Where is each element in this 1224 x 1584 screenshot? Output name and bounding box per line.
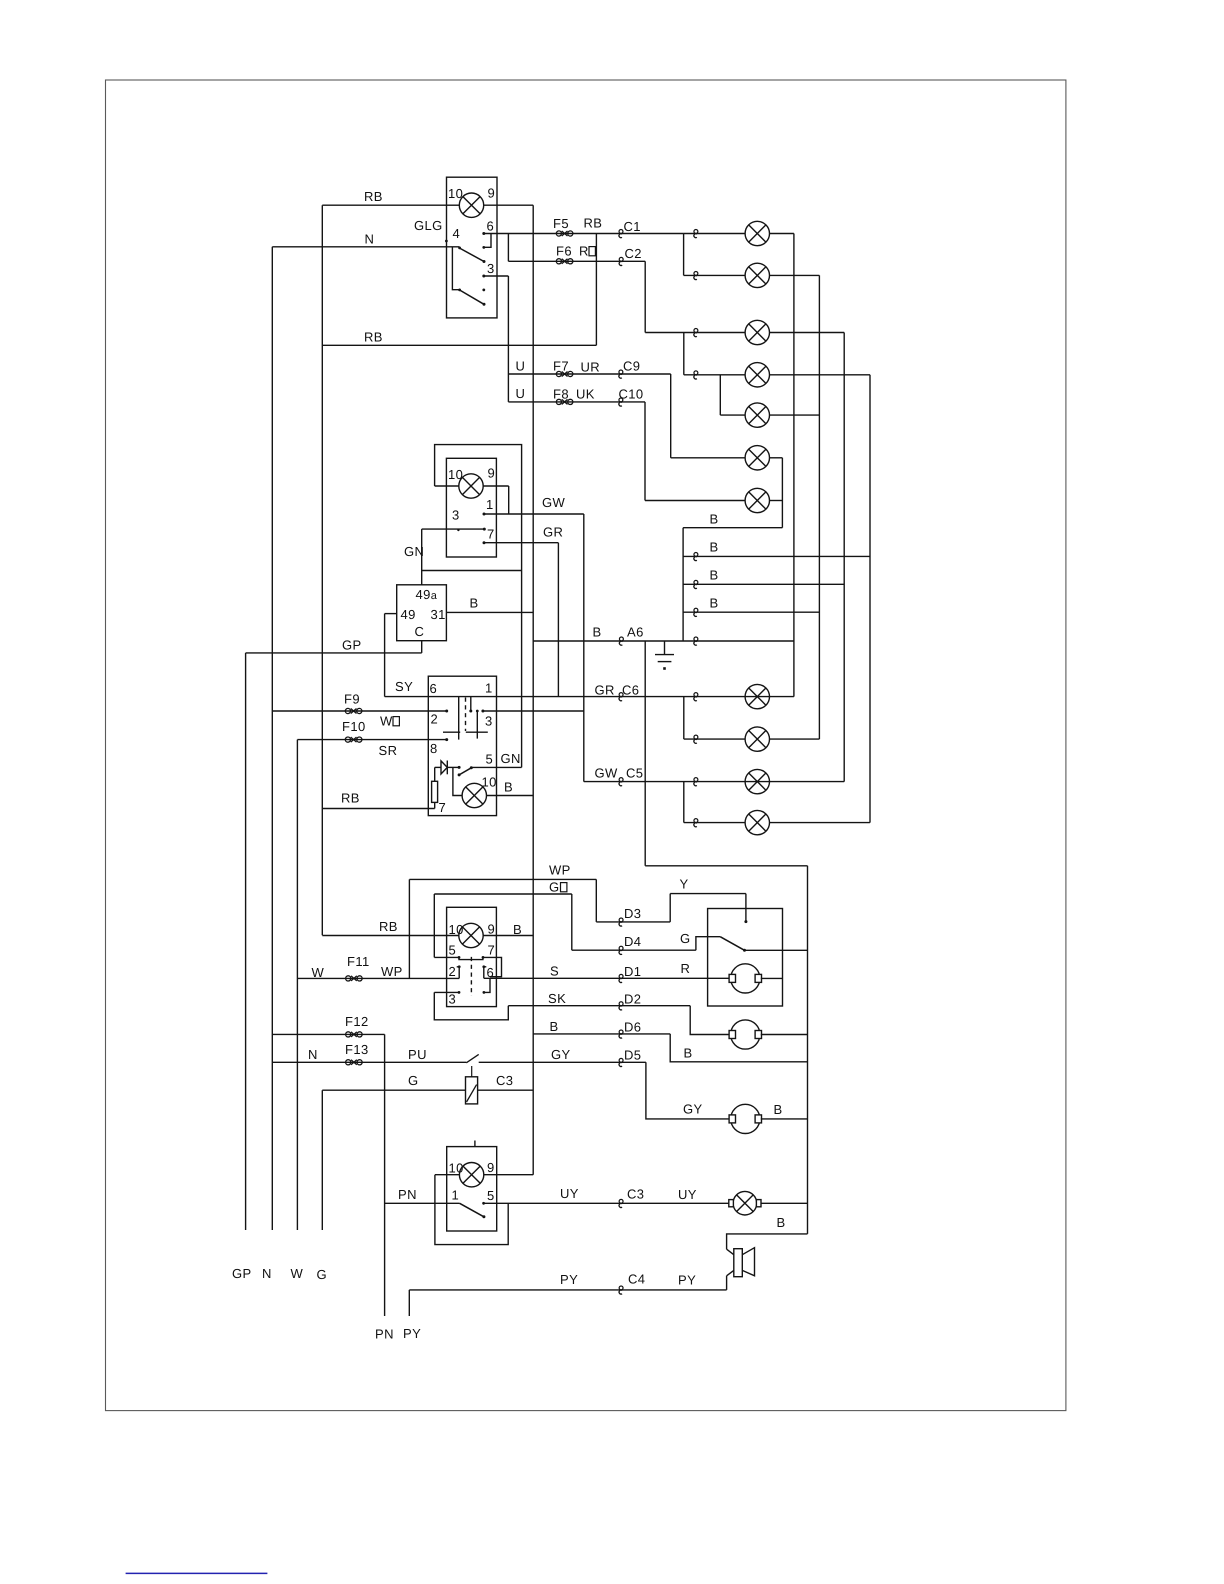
lamp E [745,403,769,427]
svg-text:GR: GR [595,683,615,698]
wire earth riser to lower B rail [644,641,646,866]
wire hazard pin5 GN to loop vertical [471,766,521,768]
wire G row to breaker coil [322,1089,465,1091]
fuse F12 [346,1032,363,1037]
wire D4 row [572,949,696,951]
connector C3 lower [619,1199,623,1207]
svg-text:W: W [380,714,393,729]
wire C5 indicator row (lamp J) [584,781,844,783]
svg-text:5: 5 [449,943,457,958]
svg-text:GY: GY [551,1047,571,1062]
fuse F10 [345,737,362,742]
svg-text:1: 1 [486,497,494,512]
wire GN riser flasher 49a [421,529,423,585]
svg-text:C4: C4 [628,1272,645,1287]
svg-text:R: R [681,961,691,976]
wire Y riser and row to motor switch [669,894,671,922]
svg-text:PN: PN [375,1327,394,1342]
connector C1 [619,230,623,238]
horn body [734,1249,743,1277]
wire lamp row F [671,457,745,459]
wire GO drop to D4 [571,894,573,950]
svg-text:G: G [317,1267,328,1282]
svg-text:6: 6 [487,965,495,980]
connector C5 [619,778,623,786]
svg-text:5: 5 [486,752,494,767]
heater blower motor [729,1104,761,1133]
wire GO link to S4 pin 5 [433,894,435,957]
svg-text:PY: PY [560,1272,578,1287]
wire S1 second pole feed [452,247,459,290]
svg-text:C6: C6 [622,683,639,698]
thermal breaker blade [466,1054,478,1062]
svg-text:W: W [291,1266,304,1281]
wire F8/C10 row [508,401,645,403]
svg-text:GP: GP [342,638,362,653]
wire RB row to hazard pin 7 [322,808,434,810]
svg-text:PY: PY [678,1273,696,1288]
wire SK row to D2 [508,1005,690,1007]
svg-text:D3: D3 [624,906,641,921]
svg-text:49: 49 [401,607,416,622]
fuse F13 [346,1060,363,1065]
S4 pin3 [458,991,461,994]
wire WP riser and top row [408,879,410,978]
wire GW from pin 1 [484,513,584,515]
wire GR from pin 7 [484,542,558,544]
footer blue rule [126,1572,268,1574]
node S1 pin 4 [445,240,448,243]
svg-text:8: 8 [430,741,438,756]
wire PY row [409,1289,726,1291]
svg-text:GR: GR [543,525,563,540]
wire D2 drop to washer motor [690,1006,729,1035]
wire lamp row E [720,414,745,416]
svg-text:R: R [579,244,589,259]
wire earth row B upper [683,527,782,529]
wire F6 branch vertical [507,234,509,262]
svg-text:10: 10 [449,922,464,937]
wiper motor armature [729,964,761,993]
wire A6 earth row [533,640,794,642]
fuse F9 [345,708,362,713]
svg-text:9: 9 [488,186,496,201]
svg-text:PY: PY [403,1326,421,1341]
svg-text:F10: F10 [342,719,366,734]
wire lamp row B [684,274,746,276]
svg-text:C: C [415,624,425,639]
svg-text:B: B [550,1019,559,1034]
svg-text:G: G [549,880,560,895]
svg-text:D4: D4 [624,934,641,949]
svg-text:3: 3 [487,261,495,276]
washer pump motor [729,1020,761,1049]
horn lead bottom [727,1270,734,1275]
hazard switch arm pin 5 [459,768,471,775]
wire lamp earth vertical A-H [793,234,795,697]
S4 pin7 hook [484,957,502,976]
wire lamp earth vertical C-J [843,333,845,782]
diode in hazard switch [435,766,441,768]
lamp panel illumination in S1 [459,193,483,217]
hazard mechanical link dashed [465,698,467,732]
lamp panel illumination in S4 [459,923,483,947]
wire GP row [246,652,422,654]
svg-text:F6: F6 [556,244,572,259]
ground symbol [664,641,666,655]
lamp I [745,727,769,751]
resistor in hazard switch [434,767,436,781]
svg-text:RB: RB [584,216,603,231]
wire D5 drop to heater motor [646,1062,729,1119]
wire GW vertical to C5 [583,514,585,782]
connector C9 [619,370,623,378]
svg-text:F5: F5 [553,216,569,231]
wire branch J to K [683,782,685,823]
svg-text:31: 31 [431,607,446,622]
svg-text:Y: Y [680,877,689,892]
svg-text:7: 7 [439,800,447,815]
lamp J [745,769,769,793]
lamp A [745,221,769,245]
svg-text:B: B [470,596,479,611]
wire RB branch row to F5 [322,344,596,346]
flasher unit box [397,585,447,641]
switch S4 wiper switch box [447,907,497,1006]
lamp C [745,320,769,344]
svg-text:1: 1 [452,1188,460,1203]
connector C4 [619,1286,623,1294]
wire C2 drop to lamp row C [644,261,646,332]
svg-text:7: 7 [487,527,495,542]
wire lamp row K [684,822,745,824]
wire hazard lamp feed [453,767,462,795]
wire S4 lamp to B vertical [483,935,533,937]
wire hazard pin1 hook [470,697,472,711]
wire F13/PU row [272,1061,466,1063]
wire RB riser to C1 line [595,234,597,346]
svg-text:F9: F9 [344,692,360,707]
svg-text:49a: 49a [416,587,438,602]
wire F6/C2 row [508,260,645,262]
node hazard pin 3 [481,710,484,713]
svg-text:10: 10 [448,467,463,482]
connector D4 [619,946,623,954]
wire pin3 under-box route to SK [434,992,508,1019]
wire motor switch common to B rail [745,949,808,951]
node S2 pin 7 [483,541,486,544]
fuse F11 [346,976,363,981]
wire F9 row to hazard pin 2 [272,710,446,712]
svg-text:B: B [593,625,602,640]
wire earth collector vertical [682,528,684,641]
svg-text:C5: C5 [626,766,643,781]
wire lamp row I [684,738,745,740]
svg-text:C3: C3 [627,1187,644,1202]
svg-text:C1: C1 [624,219,641,234]
svg-text:PN: PN [398,1187,417,1202]
hazard pole2 moving contact [476,711,478,739]
wire C10 drop to lamp row G [644,402,646,501]
svg-text:F7: F7 [553,359,569,374]
svg-text:GW: GW [595,766,619,781]
svg-text:B: B [774,1102,783,1117]
svg-text:GW: GW [542,495,566,510]
wire lamp earth vertical B-I [818,275,820,739]
svg-text:W: W [312,965,325,980]
wire lamp row A [684,233,746,235]
wire N feed to lighting switch pin 4 [272,246,459,248]
fuse F5 [556,231,573,236]
wire G supply vertical [321,1090,323,1230]
svg-text:SR: SR [379,743,398,758]
svg-text:N: N [308,1047,318,1062]
svg-text:RB: RB [341,791,360,806]
connector D3 [619,918,623,926]
wire lamps F/G earth vertical [781,458,783,528]
wiper motor box [708,909,783,1007]
wire C6 indicator row (lamp H) [385,696,794,698]
wire S2 pin3 blade from flasher [422,528,485,530]
wire D3 row [596,921,670,923]
lamp panel illumination in S5 [459,1163,483,1187]
S4 pins 5-7 bridge [459,957,483,959]
svg-text:B: B [504,780,513,795]
svg-text:C9: C9 [623,359,640,374]
wire lamp row C [645,332,745,334]
svg-text:G: G [680,931,691,946]
wire C9 drop to lamp row F [670,374,672,458]
connector D5 [619,1058,623,1066]
wire lower B rail vertical [807,866,809,1234]
wire loop link at 570 [422,570,522,572]
connector C2 [619,257,623,265]
wire hazard pin3 to GW vertical [483,710,584,712]
wire D6 jog to B rail [670,1034,807,1062]
svg-text:WP: WP [381,964,403,979]
motor reversing switch arm [720,937,744,951]
svg-text:4: 4 [453,226,461,241]
wire lamp row G [645,500,745,502]
svg-text:3: 3 [449,992,457,1007]
wire S1 pin9 to B vertical [484,204,534,206]
svg-text:GLG: GLG [414,218,443,233]
svg-text:F8: F8 [553,387,569,402]
wire hazard lamp to B vertical [487,795,534,797]
horn lead top [727,1249,734,1255]
svg-text:RB: RB [364,330,383,345]
wire F10 row to hazard pin 8 [297,739,446,741]
svg-text:2: 2 [449,964,457,979]
svg-text:D5: D5 [624,1048,641,1063]
svg-text:N: N [262,1266,272,1281]
svg-text:B: B [710,596,719,611]
wire branch A to B row [683,234,685,276]
svg-text:C3: C3 [496,1073,513,1088]
rear fog lamp [729,1191,761,1215]
node S5 pin 5 [482,1202,485,1205]
stub on bottom switch box [474,1141,476,1147]
svg-text:F13: F13 [345,1042,369,1057]
wire F12 row [272,1033,384,1035]
S4 pin6 to pin3 link [484,978,490,992]
svg-text:B: B [710,540,719,555]
node idle contact [482,289,485,292]
wire pin6/F5/C1 row [484,233,684,235]
svg-text:S: S [550,964,559,979]
wire RB row to wiper switch lamp [322,935,459,937]
wire GO row [434,893,572,895]
svg-text:U: U [516,359,526,374]
svg-text:9: 9 [488,466,496,481]
wire GY row to D5 [479,1061,646,1063]
wire PN row into S5 pin 1 [385,1202,460,1204]
svg-text:GN: GN [404,544,424,559]
svg-text:B: B [684,1046,693,1061]
connector D1 [619,974,623,982]
wire F11/WP row [297,977,459,979]
wire S row to D1 and motor [484,977,729,979]
wire flasher 49 exit [385,613,397,615]
node S2 pin 1 [483,513,486,516]
svg-text:UK: UK [576,387,595,402]
wire B/D6 row [533,1033,670,1035]
svg-text:GY: GY [683,1102,703,1117]
svg-text:RB: RB [364,189,383,204]
svg-text:F11: F11 [347,954,370,969]
svg-text:GP: GP [232,1266,252,1281]
switch arm S1 upper [459,248,484,262]
svg-text:10: 10 [448,186,463,201]
lamp H [745,684,769,708]
wire flasher C pin [421,641,423,653]
svg-text:G: G [408,1073,419,1088]
svg-text:3: 3 [485,714,493,729]
contact hook below pin 6 [484,234,491,248]
node S1 pin 6 [482,232,485,235]
svg-text:UY: UY [678,1187,697,1202]
svg-text:D6: D6 [624,1020,641,1035]
lamp K [745,810,769,834]
switch arm S5 [460,1203,484,1217]
wire flasher 31 to B vertical [446,611,533,613]
svg-text:UY: UY [560,1186,579,1201]
lamp D [745,363,769,387]
wire pin3 exit [484,275,509,277]
wire W supply vertical [296,740,298,1230]
page border frame [106,80,1066,1411]
node S1 pin 3 [482,275,485,278]
S4 pin6 bracket [484,967,487,979]
connector C6 [619,693,623,701]
svg-text:D1: D1 [624,964,641,979]
fuse F8 [556,399,573,404]
svg-text:WP: WP [549,863,571,878]
fuse F7 [556,371,573,376]
svg-text:D2: D2 [624,992,641,1007]
wire S2 lamp supply loop [435,445,522,768]
svg-text:B: B [710,568,719,583]
wire pin3 vertical to F7/F8 [507,276,509,402]
connector D2 [619,1002,623,1010]
svg-text:RB: RB [379,919,398,934]
svg-text:B: B [777,1215,786,1230]
svg-text:7: 7 [488,943,496,958]
svg-text:9: 9 [487,1160,495,1175]
wire lamp row D [684,374,745,376]
svg-text:PU: PU [408,1047,427,1062]
switch S5 rear fog/aux switch box [447,1147,497,1231]
svg-text:SK: SK [548,991,566,1006]
lamp hazard tell-tale [462,783,486,807]
S4 pin2 bracket [457,967,460,979]
wire branch H to I [683,697,685,740]
svg-text:B: B [710,512,719,527]
wire PY stub [408,1290,410,1316]
svg-text:UR: UR [581,360,601,375]
lamp G [745,488,769,512]
switch S3 hazard switch box [428,676,496,815]
svg-text:5: 5 [487,1188,495,1203]
switch S2 direction indicator switch box [446,458,496,557]
switch S1 lighting switch box [447,177,498,318]
hazard blade bars [443,731,460,733]
wire S5 lamp to B vertical [484,1174,534,1176]
wire G jog into motor switch [696,937,720,951]
connector D6 [619,1030,623,1038]
S4 dashed mechanical line [470,957,472,996]
wire UY row to lamp [484,1202,729,1204]
wire F7/C9 row [508,373,670,375]
wire branch C to D row [683,333,685,375]
fuse F6 [556,259,573,264]
wire N supply vertical [271,247,273,1230]
svg-text:10: 10 [449,1161,464,1176]
wire RB feed to lighting switch lamp [322,204,446,206]
wire GR vertical to C6 [557,543,559,697]
svg-text:B: B [513,922,522,937]
wire B rail to horn [727,1234,808,1249]
svg-text:10: 10 [482,775,497,790]
svg-text:U: U [516,386,526,401]
wire SY vertical 49 to hazard pin 6 [384,614,386,697]
svg-text:2: 2 [431,712,439,727]
svg-text:F12: F12 [345,1014,369,1029]
hazard pole1 moving contact [458,697,460,740]
wire earth row B3 [683,611,819,613]
svg-text:1: 1 [485,681,493,696]
svg-text:C10: C10 [619,387,644,402]
wire earth row B1 [683,555,870,557]
lamp F [745,446,769,470]
svg-text:GN: GN [501,751,521,766]
connector A6 [619,637,623,645]
svg-text:6: 6 [430,681,438,696]
wire B main vertical [532,205,534,1174]
lamp B [745,263,769,287]
breaker heater coil C3 [466,1077,478,1104]
wire RB supply vertical [321,205,323,935]
svg-text:A6: A6 [627,625,644,640]
switch arm S1 lower [459,290,484,304]
svg-text:C2: C2 [625,246,642,261]
lamp panel illumination in S2 [459,474,483,498]
wire GP vertical [245,653,247,1230]
wire S5 lamp loop [435,1175,508,1245]
wire lamp earth vertical D-K [869,375,871,823]
svg-text:3: 3 [452,508,460,523]
wire WP drop to D3 [595,879,597,922]
